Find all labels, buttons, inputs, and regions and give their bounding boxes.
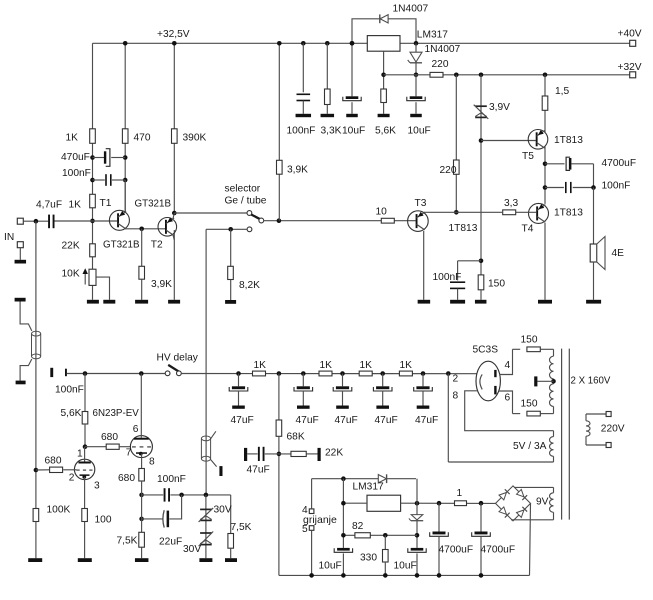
svg-text:1T813: 1T813 — [554, 135, 583, 146]
svg-text:1N4007: 1N4007 — [393, 4, 429, 15]
svg-text:100nF: 100nF — [55, 385, 84, 396]
svg-text:150: 150 — [521, 398, 538, 409]
svg-text:1K: 1K — [69, 200, 82, 211]
svg-text:5,6K: 5,6K — [375, 126, 396, 137]
svg-text:T4: T4 — [522, 223, 534, 234]
svg-text:100nF: 100nF — [602, 181, 631, 192]
svg-text:+40V: +40V — [618, 29, 642, 40]
svg-text:grijanje: grijanje — [303, 514, 337, 526]
svg-text:8,2K: 8,2K — [239, 280, 260, 291]
svg-text:100nF: 100nF — [157, 474, 186, 485]
svg-text:T3: T3 — [415, 198, 427, 209]
svg-text:10uF: 10uF — [319, 560, 342, 571]
svg-text:1,5: 1,5 — [555, 86, 569, 97]
svg-text:82: 82 — [352, 521, 364, 532]
svg-text:680: 680 — [118, 473, 135, 484]
svg-text:100K: 100K — [47, 505, 71, 516]
svg-text:10uF: 10uF — [408, 126, 431, 137]
svg-text:150: 150 — [488, 279, 505, 290]
svg-text:2: 2 — [453, 374, 459, 385]
svg-text:1K: 1K — [320, 360, 333, 371]
svg-text:10uF: 10uF — [342, 126, 365, 137]
svg-text:7: 7 — [126, 448, 132, 459]
svg-text:100nF: 100nF — [62, 168, 91, 179]
svg-text:220: 220 — [432, 59, 449, 70]
svg-text:6N23P-EV: 6N23P-EV — [93, 408, 140, 419]
svg-text:1N4007: 1N4007 — [425, 44, 461, 55]
svg-text:Ge / tube: Ge / tube — [225, 196, 267, 207]
svg-text:470: 470 — [134, 133, 151, 144]
svg-text:6: 6 — [505, 393, 511, 404]
svg-text:22uF: 22uF — [159, 537, 182, 548]
svg-text:1K: 1K — [254, 360, 267, 371]
svg-text:10uF: 10uF — [394, 560, 417, 571]
svg-text:680: 680 — [45, 456, 62, 467]
svg-text:LM317: LM317 — [353, 482, 384, 493]
svg-text:4,7uF: 4,7uF — [36, 200, 62, 211]
svg-text:4700uF: 4700uF — [439, 545, 474, 556]
svg-text:8: 8 — [149, 457, 155, 468]
svg-text:30V: 30V — [214, 505, 232, 516]
svg-text:10K: 10K — [62, 269, 80, 280]
svg-text:selector: selector — [225, 184, 261, 195]
svg-text:680: 680 — [101, 432, 118, 443]
svg-text:1: 1 — [77, 448, 83, 459]
svg-text:47uF: 47uF — [375, 415, 398, 426]
svg-text:150: 150 — [521, 334, 538, 345]
svg-text:+32V: +32V — [618, 62, 642, 73]
svg-text:1K: 1K — [400, 360, 413, 371]
svg-text:+32,5V: +32,5V — [157, 29, 190, 40]
svg-text:47uF: 47uF — [296, 415, 319, 426]
svg-text:100nF: 100nF — [433, 272, 462, 283]
svg-text:5,6K: 5,6K — [61, 408, 82, 419]
svg-text:2 X 160V: 2 X 160V — [571, 376, 611, 387]
svg-text:1T813: 1T813 — [554, 208, 583, 219]
svg-text:1: 1 — [457, 488, 463, 499]
svg-text:3,3: 3,3 — [504, 198, 518, 209]
svg-text:1T813: 1T813 — [449, 223, 478, 234]
svg-text:10: 10 — [376, 207, 388, 218]
svg-text:390K: 390K — [183, 133, 207, 144]
svg-text:47uF: 47uF — [247, 464, 270, 475]
svg-text:220V: 220V — [601, 423, 625, 434]
svg-text:4E: 4E — [612, 248, 625, 259]
svg-text:4700uF: 4700uF — [602, 158, 637, 169]
svg-text:2: 2 — [69, 473, 75, 484]
svg-text:47uF: 47uF — [415, 415, 438, 426]
svg-text:7,5K: 7,5K — [117, 536, 138, 547]
svg-text:9V: 9V — [536, 496, 549, 507]
svg-text:IN: IN — [4, 232, 14, 243]
svg-text:8: 8 — [453, 391, 459, 402]
svg-text:3,3K: 3,3K — [321, 126, 342, 137]
svg-text:68K: 68K — [287, 432, 305, 443]
svg-text:T5: T5 — [522, 151, 534, 162]
svg-text:HV delay: HV delay — [157, 353, 199, 364]
svg-text:LM317: LM317 — [417, 30, 448, 41]
svg-text:220: 220 — [440, 165, 457, 176]
svg-text:7,5K: 7,5K — [231, 522, 252, 533]
svg-text:6: 6 — [133, 424, 139, 435]
svg-text:3,9K: 3,9K — [151, 279, 172, 290]
svg-text:5V / 3A: 5V / 3A — [513, 441, 547, 452]
svg-text:GT321B: GT321B — [103, 239, 140, 250]
svg-text:4: 4 — [505, 360, 511, 371]
svg-text:T1: T1 — [100, 198, 112, 209]
svg-text:3,9K: 3,9K — [287, 165, 308, 176]
svg-text:470uF: 470uF — [61, 152, 90, 163]
svg-text:30V: 30V — [183, 544, 201, 555]
svg-text:3,9V: 3,9V — [489, 102, 510, 113]
svg-text:3: 3 — [94, 481, 100, 492]
svg-text:1K: 1K — [360, 360, 373, 371]
svg-text:5C3S: 5C3S — [473, 344, 499, 355]
svg-text:330: 330 — [360, 553, 377, 564]
svg-text:100nF: 100nF — [287, 126, 316, 137]
svg-text:1K: 1K — [66, 133, 79, 144]
svg-text:47uF: 47uF — [231, 415, 254, 426]
svg-text:4700uF: 4700uF — [481, 545, 516, 556]
svg-text:22K: 22K — [62, 241, 80, 252]
svg-text:100: 100 — [95, 515, 112, 526]
svg-text:T2: T2 — [151, 239, 163, 250]
svg-text:22K: 22K — [325, 448, 343, 459]
svg-text:GT321B: GT321B — [135, 199, 172, 210]
svg-text:47uF: 47uF — [335, 415, 358, 426]
